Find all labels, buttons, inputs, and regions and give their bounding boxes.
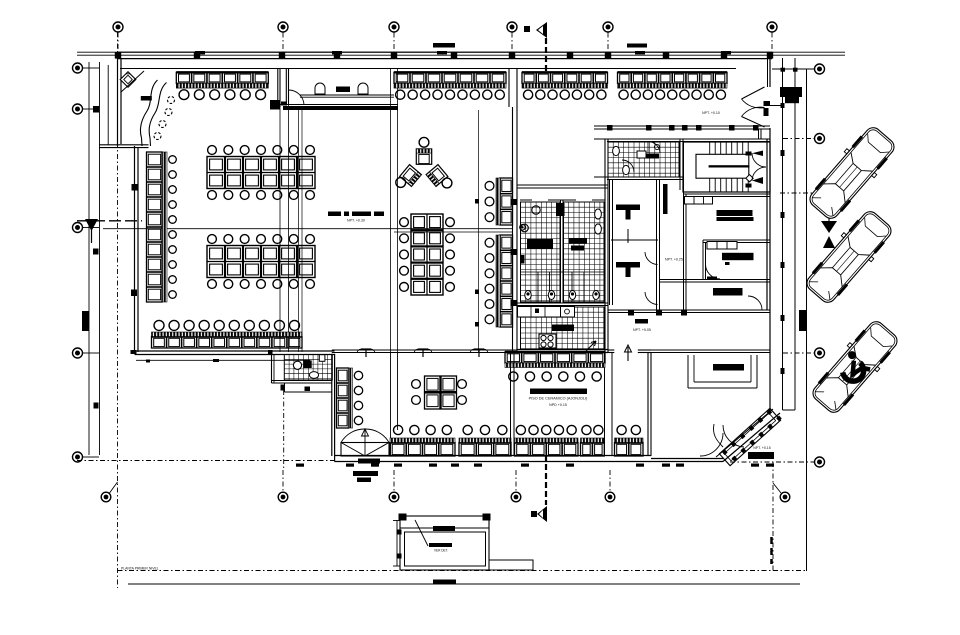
- grid bubble left 1: [73, 63, 100, 73]
- lane arrows: [821, 210, 837, 248]
- grid bubble top 6: [767, 22, 777, 52]
- office B cabinets: [707, 242, 737, 250]
- center wall grid4: [509, 69, 517, 353]
- kitchen stove: [539, 334, 556, 348]
- svg-text:NPT. +0.25: NPT. +0.25: [665, 258, 683, 262]
- grid bubble top 2: [278, 22, 288, 52]
- table Y group: [396, 137, 452, 188]
- beam line grid2: [280, 102, 302, 352]
- grid bubble left 5: [73, 452, 100, 462]
- section line D vertical: [772, 462, 774, 571]
- table block upper: [207, 146, 315, 200]
- office divider h: [611, 239, 658, 241]
- car 3 handicap: [807, 316, 902, 417]
- svg-text:NPT. +0.15: NPT. +0.15: [753, 446, 770, 450]
- office B desk: [722, 253, 754, 265]
- booth row top 4: [618, 72, 728, 99]
- grid bubble bottom A: [101, 482, 117, 502]
- hall text NPT3: [702, 111, 720, 115]
- svg-text:NPT. +0.10: NPT. +0.10: [702, 111, 720, 115]
- booth row top 1: [176, 72, 268, 99]
- vestibule east wall: [286, 69, 288, 103]
- bath north openings: [520, 199, 605, 201]
- beam line grid3: [391, 69, 398, 353]
- wing north wall: [332, 350, 770, 353]
- booth row bottom 3: [515, 425, 579, 456]
- parking strip lines: [781, 58, 807, 571]
- office west wall: [610, 179, 613, 305]
- grid bubble left 4: [73, 348, 100, 358]
- wing south wall: [335, 456, 724, 462]
- vestibule west wall: [278, 69, 280, 108]
- bar label: [141, 96, 152, 101]
- table 4-seat group: [412, 376, 467, 409]
- dimension verticals left: [89, 62, 108, 455]
- meeting cabinets: [685, 197, 713, 205]
- svg-text:VER DET.: VER DET.: [434, 549, 448, 553]
- property line bottom: [118, 570, 807, 572]
- grid bubble top 4: [507, 22, 517, 52]
- car 1: [804, 122, 899, 223]
- booth column mid 1: [485, 178, 512, 225]
- node bubble mid: [520, 225, 526, 231]
- grid bubble bottom 2: [389, 470, 399, 502]
- bar corner diagonal: [121, 71, 145, 93]
- bath divider wall: [561, 200, 564, 303]
- office mid wall: [657, 179, 660, 310]
- lower dining label: [529, 389, 588, 408]
- grid bubble bottom 1: [278, 470, 288, 502]
- left wall upper: [118, 52, 122, 146]
- grid node right dot: [780, 188, 824, 197]
- wing west wall: [332, 354, 335, 462]
- canopy step: [489, 560, 533, 570]
- corridor walls: [684, 142, 687, 311]
- svg-text:NPT. +0.30: NPT. +0.30: [347, 219, 365, 223]
- grid bubble top 1: [113, 22, 123, 52]
- bottom dimension ticks: [296, 464, 774, 467]
- grid bubble right 1: [772, 64, 825, 74]
- floor label 2: [328, 212, 384, 223]
- kitchen counter black: [552, 325, 574, 332]
- canopy structure: [393, 514, 491, 571]
- booth row top 3: [522, 72, 608, 99]
- parking black bar top: [780, 68, 802, 108]
- bar serpentine wall: [140, 80, 166, 146]
- office B south wall: [660, 280, 771, 283]
- wash room walls: [272, 355, 333, 393]
- booth row bottom 5: [615, 425, 644, 456]
- label bar bottom: [433, 580, 456, 585]
- survey bar left: [82, 311, 89, 331]
- grid bubble bottom right: [773, 483, 790, 502]
- services block north wall: [517, 185, 608, 188]
- bathroom 1 tiles: [521, 202, 561, 302]
- svg-text:NPT. +0.05: NPT. +0.05: [633, 328, 651, 332]
- section marker B top: [524, 22, 547, 72]
- office table 1: [616, 205, 640, 220]
- booth row bottom 4: [581, 425, 605, 456]
- hall text NPT2: [665, 258, 683, 262]
- booth column left: [147, 152, 177, 302]
- grid bubble right 2: [783, 134, 825, 144]
- wash room tiles: [284, 355, 332, 381]
- grid line A vertical: [117, 32, 119, 588]
- svg-text:PLANTA PRIMER NIVEL: PLANTA PRIMER NIVEL: [121, 567, 159, 571]
- meeting room north wall: [684, 194, 771, 197]
- kitchen tiles: [521, 307, 605, 349]
- grid line mid horizontal: [77, 221, 512, 232]
- east wall: [767, 52, 770, 413]
- canopy leader: [415, 520, 452, 553]
- office door 1: [645, 252, 658, 265]
- wing room divider: [391, 353, 398, 456]
- upper bathroom fixtures: [613, 144, 660, 174]
- grid bubble top 3: [389, 22, 399, 52]
- hall label bar: [635, 319, 648, 324]
- table block lower: [207, 235, 315, 289]
- svg-text:PISO DE CERAMICO (AJONJOLI): PISO DE CERAMICO (AJONJOLI): [529, 397, 588, 401]
- grid bubble top 5: [603, 22, 613, 52]
- bar stools: [154, 97, 175, 140]
- top wall inner line: [120, 68, 736, 70]
- hall entry arrow: [625, 345, 632, 361]
- upper block north wall: [594, 139, 770, 142]
- meeting desk: [717, 210, 754, 221]
- east room counter: [688, 355, 757, 388]
- office C south wall: [608, 310, 770, 316]
- main entrance door: [742, 87, 783, 139]
- entry hall south wall: [594, 125, 770, 131]
- boundary line bottom: [121, 567, 800, 585]
- section marker D bottom: [531, 455, 547, 522]
- vestibule door arc: [281, 90, 304, 106]
- office B door: [706, 264, 721, 280]
- kitchen south wall: [517, 350, 608, 353]
- bar diamond table: [120, 72, 136, 88]
- grid bubble bottom 4: [605, 470, 615, 502]
- booth column wing: [337, 368, 363, 428]
- grid bubble right 5: [730, 457, 825, 467]
- grid bubble bottom 3: [511, 470, 521, 502]
- grid bubble left 2: [73, 104, 100, 114]
- lower dining wall east: [605, 353, 613, 456]
- stairs south wall: [683, 191, 770, 193]
- ramp text: [748, 446, 774, 459]
- east room door: [700, 433, 723, 456]
- left wall jog: [99, 145, 149, 148]
- vestibule planters: [315, 83, 368, 94]
- beam line mid4: [475, 110, 479, 352]
- upper bathroom tiles: [608, 142, 679, 177]
- booth row bottom 1: [390, 425, 455, 456]
- services east wall: [605, 139, 608, 352]
- kitchen arrow: [586, 341, 596, 351]
- toilets: [525, 291, 599, 300]
- grid bubble left 3: [73, 223, 100, 233]
- bath south wall: [517, 303, 608, 306]
- booth row kitchen south: [505, 352, 605, 381]
- dining south wall: [131, 350, 335, 363]
- upper bathroom south wall: [594, 177, 683, 180]
- bath stalls: [520, 272, 605, 303]
- meeting south wall: [703, 240, 770, 280]
- booth row left lower: [152, 320, 303, 348]
- entrance label: [353, 471, 378, 482]
- section arrow A left: [85, 219, 98, 243]
- kitchen sink: [518, 307, 575, 318]
- table block vertical: [400, 214, 455, 295]
- bath stairs divider: [680, 139, 683, 190]
- top wall: [115, 52, 773, 58]
- staircase: [683, 142, 770, 192]
- hall text NPT1: [633, 328, 651, 332]
- wash room fixtures: [293, 355, 325, 379]
- wing posts: [357, 349, 488, 357]
- wing east wall seg: [648, 353, 651, 457]
- ramp diagonal: [716, 407, 782, 466]
- service door X: [341, 429, 389, 464]
- grid bubble right 4: [783, 348, 825, 358]
- office C door: [748, 296, 762, 310]
- bath counter 1: [521, 203, 565, 264]
- booth column mid 2: [485, 235, 512, 327]
- bathroom 2 tiles: [564, 202, 605, 302]
- booth row bottom 2: [459, 425, 511, 456]
- booth row top 2: [394, 72, 506, 99]
- lower dining wall mid: [511, 353, 515, 456]
- svg-text:NPD +0.15: NPD +0.15: [549, 403, 567, 407]
- left wall lower: [131, 146, 138, 354]
- corridor desk: [663, 184, 668, 214]
- grid line 2 vertical lower: [283, 390, 285, 470]
- car 2: [801, 206, 896, 307]
- dimension line top: [77, 43, 845, 55]
- office door 2: [645, 292, 658, 305]
- grid line bottom horizontal: [77, 460, 334, 462]
- bath sinks: [521, 206, 602, 234]
- bath counter 2: [569, 238, 587, 251]
- upper bathroom doors: [622, 142, 660, 173]
- office C desk: [713, 288, 743, 296]
- corridor arrow symbol: [627, 229, 629, 243]
- ramp arc: [713, 424, 744, 447]
- office table 2: [616, 262, 640, 277]
- parking black bar mid: [799, 310, 807, 331]
- vestibule south wall: [270, 95, 398, 110]
